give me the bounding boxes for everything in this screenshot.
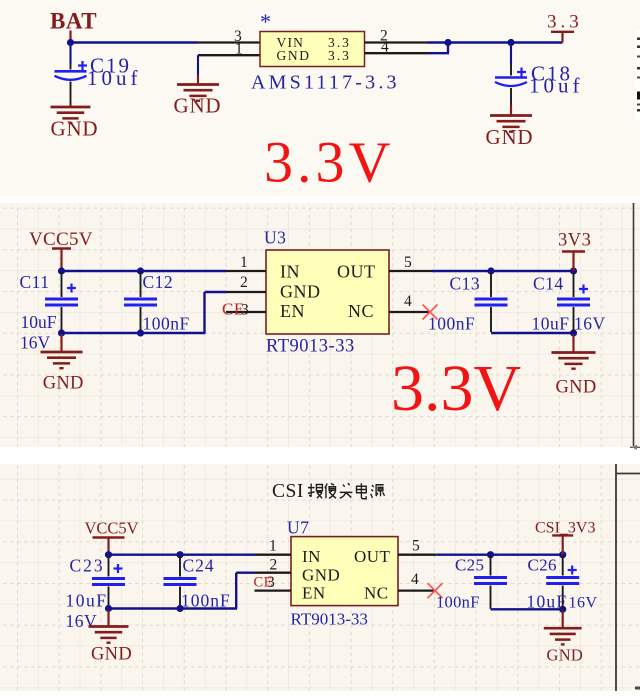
svg-text:EN: EN bbox=[302, 584, 326, 603]
svg-text:CE: CE bbox=[254, 575, 274, 591]
svg-text:16V: 16V bbox=[66, 611, 98, 631]
svg-text:IN: IN bbox=[302, 547, 321, 566]
svg-text:GND: GND bbox=[174, 94, 222, 118]
svg-text:4: 4 bbox=[404, 293, 412, 310]
svg-text:VCC5V: VCC5V bbox=[85, 519, 139, 538]
svg-text:GND: GND bbox=[280, 282, 321, 302]
svg-text:16V: 16V bbox=[569, 595, 598, 612]
svg-text:C13: C13 bbox=[450, 274, 481, 294]
svg-text:OUT: OUT bbox=[354, 547, 391, 566]
svg-text:GND: GND bbox=[277, 48, 311, 63]
svg-text:100nF: 100nF bbox=[143, 314, 190, 334]
svg-text:RT9013-33: RT9013-33 bbox=[266, 337, 355, 357]
svg-text:3.3: 3.3 bbox=[328, 48, 351, 63]
svg-text:AMS1117-3.3: AMS1117-3.3 bbox=[251, 72, 400, 94]
svg-text:5: 5 bbox=[404, 254, 412, 271]
svg-text:GND: GND bbox=[51, 117, 99, 141]
svg-text:C25: C25 bbox=[455, 556, 484, 575]
svg-text:100nF: 100nF bbox=[428, 314, 475, 334]
svg-text:C11: C11 bbox=[20, 272, 50, 292]
svg-text:NC: NC bbox=[364, 584, 389, 603]
svg-text:C14: C14 bbox=[533, 274, 564, 294]
svg-text:U7: U7 bbox=[287, 518, 309, 538]
svg-text:BAT: BAT bbox=[50, 9, 97, 34]
svg-text:GND: GND bbox=[43, 374, 84, 394]
svg-text:10uf: 10uf bbox=[529, 74, 584, 98]
svg-text:1: 1 bbox=[269, 538, 277, 555]
svg-text:*: * bbox=[260, 9, 271, 34]
svg-text:OUT: OUT bbox=[337, 262, 376, 282]
svg-text:IN: IN bbox=[280, 262, 300, 282]
svg-text:CE: CE bbox=[222, 300, 245, 319]
svg-text:4: 4 bbox=[411, 571, 419, 588]
svg-text:RT9013-33: RT9013-33 bbox=[291, 610, 368, 629]
svg-text:10uF: 10uF bbox=[532, 314, 570, 334]
svg-text:GND: GND bbox=[556, 378, 597, 398]
svg-text:GND: GND bbox=[91, 645, 132, 665]
svg-text:CSI: CSI bbox=[272, 481, 304, 502]
svg-text:NC: NC bbox=[348, 301, 374, 321]
svg-text:2: 2 bbox=[240, 274, 248, 291]
svg-text:C26: C26 bbox=[528, 556, 557, 575]
svg-text:GND: GND bbox=[302, 566, 340, 585]
svg-text:EN: EN bbox=[280, 301, 305, 321]
svg-text:CSI_3V3: CSI_3V3 bbox=[535, 520, 595, 537]
svg-text:3V3: 3V3 bbox=[558, 231, 591, 251]
svg-text:GND: GND bbox=[486, 125, 534, 149]
svg-text:10uF: 10uF bbox=[21, 312, 57, 332]
svg-text:C23: C23 bbox=[70, 556, 105, 576]
svg-text:1: 1 bbox=[235, 41, 243, 58]
svg-text:16V: 16V bbox=[574, 314, 606, 334]
svg-text:1: 1 bbox=[240, 254, 248, 271]
svg-text:100nF: 100nF bbox=[436, 593, 480, 612]
svg-text:10uF: 10uF bbox=[527, 592, 568, 612]
svg-text:5: 5 bbox=[412, 538, 420, 555]
svg-text:GND: GND bbox=[547, 646, 584, 665]
svg-text:3.3V: 3.3V bbox=[391, 352, 521, 425]
svg-text:3.3: 3.3 bbox=[547, 12, 583, 33]
svg-text:3.3V: 3.3V bbox=[264, 130, 394, 195]
svg-text:U3: U3 bbox=[264, 228, 286, 248]
svg-text:16V: 16V bbox=[20, 333, 51, 353]
svg-text:2: 2 bbox=[270, 557, 278, 574]
svg-text:10uf: 10uf bbox=[87, 66, 142, 90]
svg-text:C12: C12 bbox=[143, 272, 174, 292]
svg-text:10uF: 10uF bbox=[66, 591, 108, 611]
svg-text:VCC5V: VCC5V bbox=[29, 229, 93, 250]
svg-text:C24: C24 bbox=[183, 556, 215, 576]
